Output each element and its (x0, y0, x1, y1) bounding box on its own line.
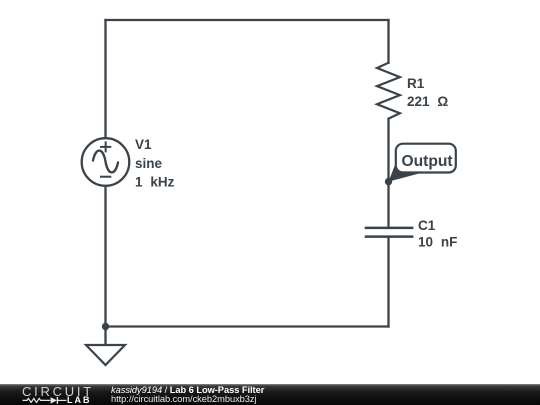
footer url line (111, 394, 257, 404)
CircuitLab logo (0, 380, 100, 405)
label R1 221 ohm (407, 76, 448, 109)
voltage source V1 (82, 138, 130, 186)
junction dot bottom-left (102, 323, 109, 330)
wire left upper segment (104, 20, 106, 138)
footer bar (0, 384, 540, 405)
node dot at Output (385, 178, 392, 185)
footer title line (111, 385, 264, 395)
ground symbol (86, 345, 125, 365)
svg-text:10 nF: 10 nF (418, 235, 457, 250)
wire top horizontal (106, 19, 389, 21)
capacitor C1 (365, 228, 414, 237)
svg-text:R1: R1 (407, 76, 425, 91)
wire resistor-to-capacitor segment (387, 119, 389, 228)
node Output flag (389, 144, 456, 182)
resistor R1 (377, 63, 400, 119)
svg-text:Output: Output (402, 153, 453, 170)
wire right upper segment (387, 20, 389, 63)
label V1 sine 1 kHz (135, 137, 175, 189)
svg-text:C1: C1 (418, 218, 436, 233)
label C1 10 nF (418, 218, 457, 250)
svg-text:V1: V1 (135, 137, 152, 152)
wire bottom horizontal (106, 325, 389, 327)
svg-text:1 kHz: 1 kHz (135, 174, 175, 189)
svg-text:LAB: LAB (67, 395, 92, 405)
svg-text:221 Ω: 221 Ω (407, 94, 448, 109)
wire left lower segment (104, 186, 106, 345)
wire capacitor-to-bottom segment (387, 237, 389, 327)
svg-text:sine: sine (135, 156, 163, 171)
